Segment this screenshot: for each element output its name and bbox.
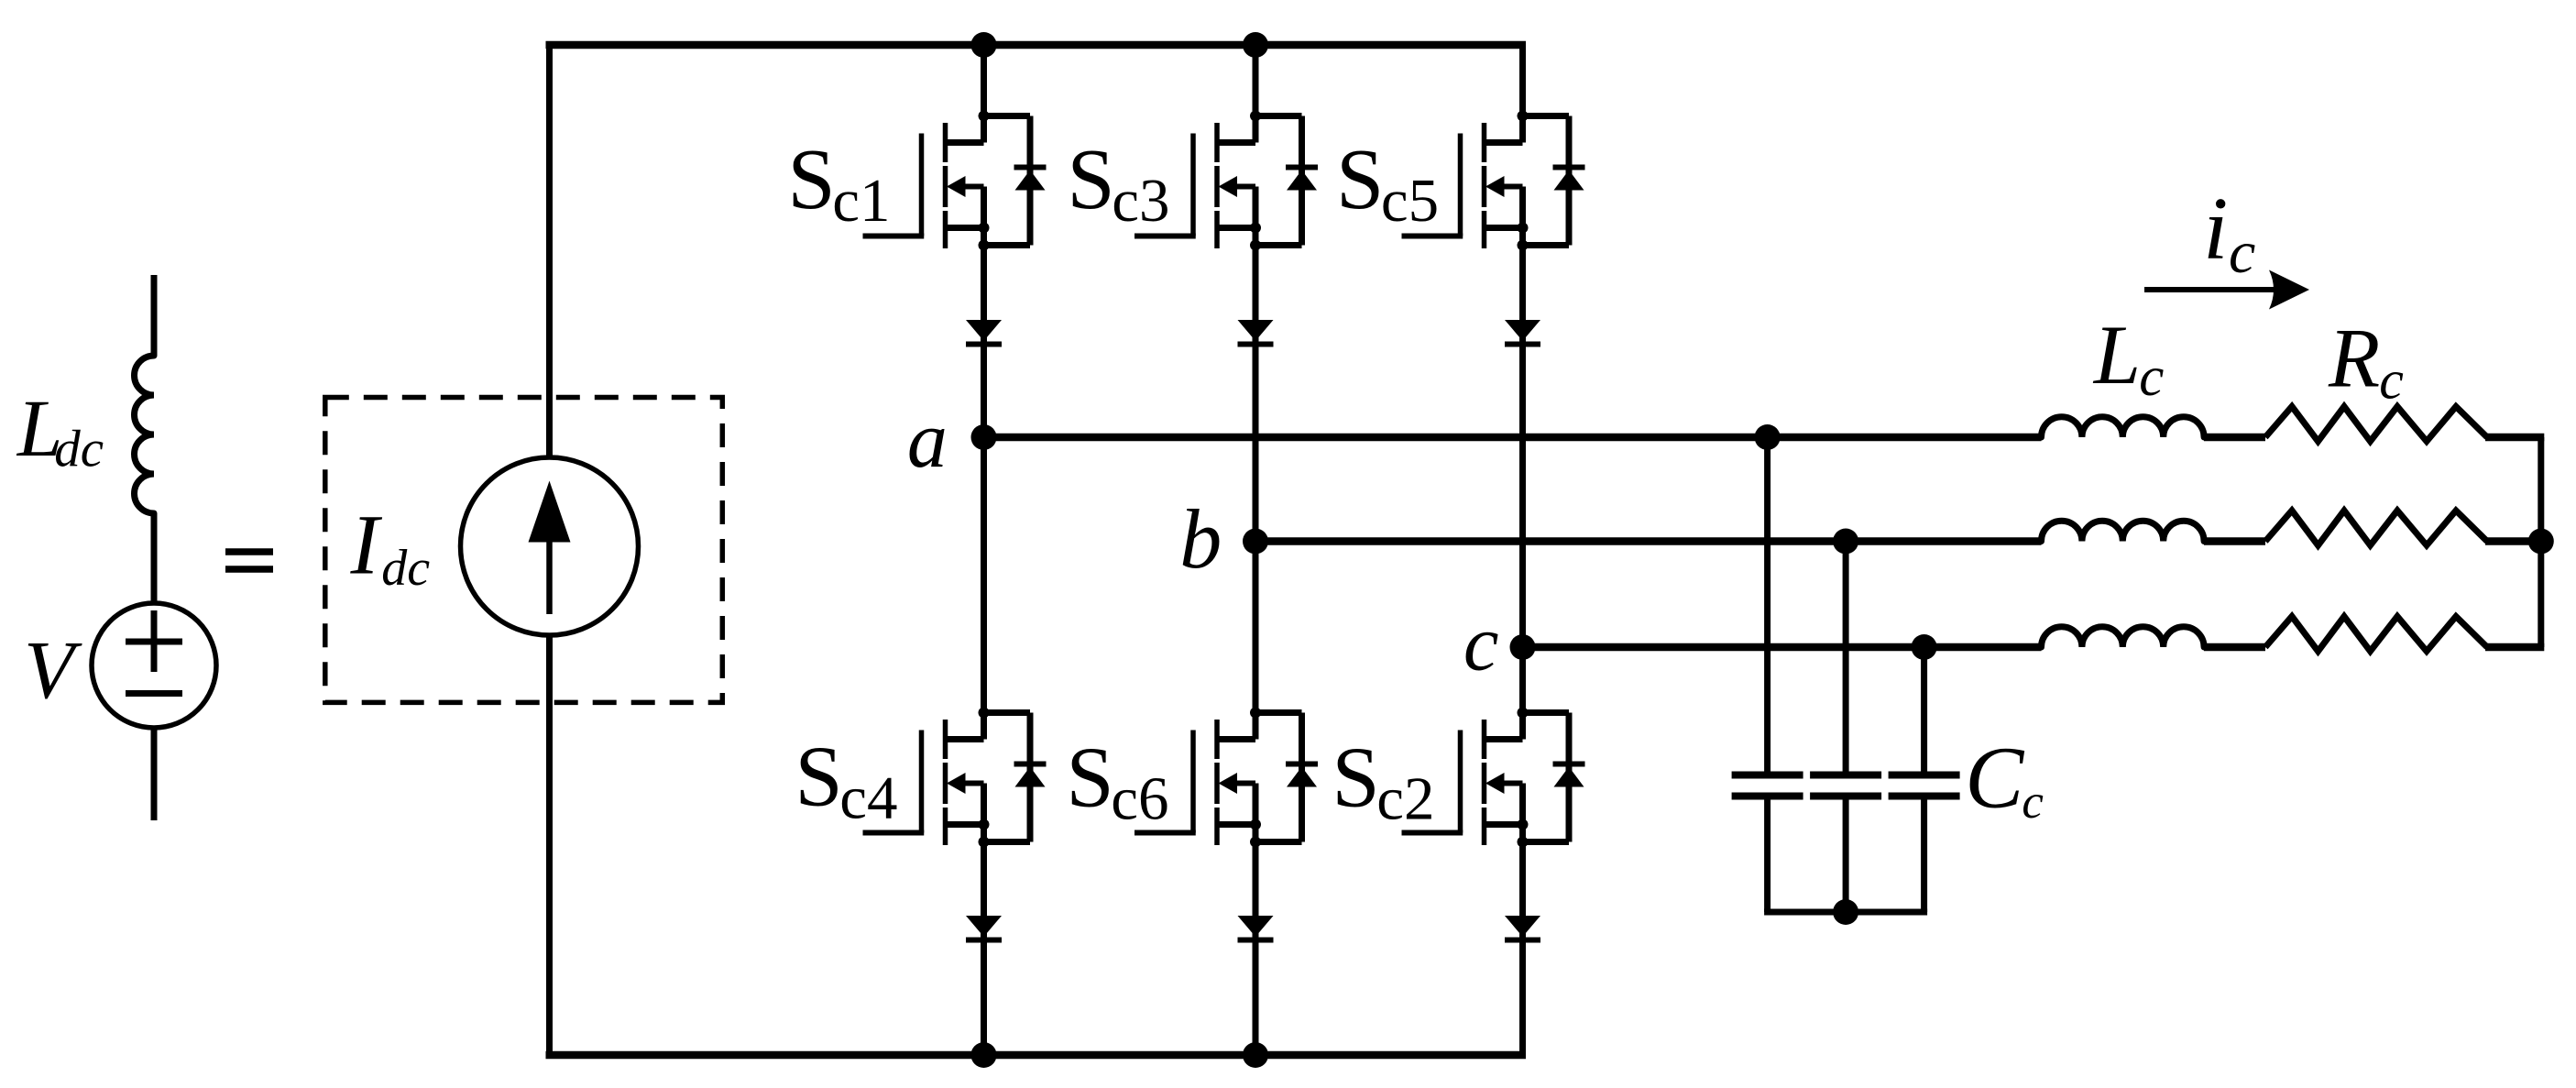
wire leg2 upper-mid [1253, 246, 1259, 542]
transistor Sc1 [863, 111, 1031, 251]
label V [24, 625, 82, 716]
resistor Rc phase a [2265, 407, 2487, 442]
svg-text:S: S [795, 730, 842, 825]
svg-text:c: c [1463, 599, 1499, 687]
svg-text:L: L [2092, 308, 2141, 401]
wire leg2 lower-mid [1253, 542, 1259, 713]
capacitor Cc phase a [1732, 775, 1803, 797]
wire phase c row [1523, 643, 2545, 652]
wire leg1 top [981, 45, 987, 116]
junction c to capacitor [1912, 634, 1937, 660]
wire leg3 lower-mid [1519, 647, 1526, 713]
capacitor Cc phase b [1810, 775, 1881, 797]
svg-text:c5: c5 [1381, 167, 1439, 235]
junction top bus leg1 [971, 32, 997, 58]
junction a to capacitor [1755, 424, 1781, 450]
junction top bus leg2 [1243, 32, 1268, 58]
wire capacitor join bus [1764, 909, 1927, 916]
svg-text:I: I [350, 499, 383, 593]
body diode of Sc5 [1553, 116, 1585, 246]
junction capacitor bus [1833, 899, 1858, 925]
transistor Sc4 [863, 708, 1031, 848]
body diode of Sc3 [1286, 116, 1318, 246]
wire top bus [546, 41, 1527, 49]
wire left rail lower [546, 635, 553, 1059]
series diode D1 [966, 320, 1002, 345]
junction neutral b [2528, 529, 2554, 555]
label Rc [2328, 312, 2404, 411]
svg-text:S: S [1066, 731, 1113, 826]
inductor Lc phase b [2042, 521, 2205, 541]
junction b to capacitor [1833, 529, 1858, 555]
svg-text:b: b [1179, 492, 1222, 586]
label c [1463, 599, 1499, 687]
wire leg1 upper-mid [981, 246, 987, 438]
svg-text:c6: c6 [1111, 765, 1168, 833]
transistor Sc6 [1135, 708, 1302, 848]
svg-text:C: C [1965, 729, 2024, 827]
label b [1179, 492, 1222, 586]
junction bottom bus leg2 [1243, 1042, 1268, 1068]
wire neutral bus [2538, 437, 2544, 647]
wire leg3 bottom [1519, 842, 1526, 1056]
label Lc [2092, 308, 2164, 408]
label Sc1 [787, 132, 890, 235]
capacitor Cc phase c [1889, 775, 1960, 797]
current arrow ic [2144, 270, 2309, 310]
svg-text:c2: c2 [1376, 765, 1434, 833]
svg-text:a: a [907, 396, 948, 485]
wire capacitor branch b [1843, 542, 1849, 913]
label ic [2203, 180, 2255, 286]
body diode of Sc2 [1553, 713, 1585, 842]
svg-text:S: S [1332, 731, 1379, 826]
transistor Sc5 [1402, 111, 1570, 251]
equals sign [225, 552, 273, 569]
wire bottom bus [546, 1051, 1527, 1060]
svg-text:S: S [1067, 132, 1114, 227]
label Ldc [16, 384, 104, 478]
inductor Lc phase a [2042, 417, 2205, 437]
svg-text:dc: dc [54, 421, 104, 478]
svg-text:S: S [1336, 132, 1384, 227]
wire V source bottom lead [151, 728, 158, 820]
label Sc5 [1336, 132, 1439, 235]
resistor Rc phase c [2265, 617, 2487, 652]
wire Ldc top lead [151, 275, 158, 356]
label Sc6 [1066, 731, 1168, 833]
svg-text:c4: c4 [839, 764, 897, 832]
series diode D4 [966, 916, 1002, 940]
current source Idc [461, 457, 639, 635]
wire leg3 top [1519, 42, 1526, 116]
series diode D6 [1238, 916, 1274, 940]
wire leg2 top [1253, 45, 1259, 116]
series diode D3 [1238, 320, 1274, 345]
svg-text:V: V [24, 625, 82, 716]
wire leg1 lower-mid [981, 437, 987, 713]
label Sc4 [795, 730, 897, 832]
wire phase b row [1255, 537, 2544, 545]
wire left rail upper [546, 42, 553, 458]
wire phase a row [984, 434, 2545, 442]
wire capacitor branch c [1921, 647, 1927, 912]
inductor Lc phase c [2042, 627, 2205, 647]
label Sc3 [1067, 132, 1169, 235]
svg-text:c: c [2022, 775, 2044, 829]
wire leg3 upper-mid [1519, 246, 1526, 648]
svg-text:dc: dc [381, 540, 430, 597]
inductor Ldc [135, 356, 155, 513]
svg-text:c3: c3 [1112, 167, 1169, 235]
transistor Sc2 [1402, 708, 1570, 848]
body diode of Sc6 [1286, 713, 1318, 842]
node c [1510, 634, 1536, 660]
junction bottom bus leg1 [971, 1042, 997, 1068]
wire leg1 bottom [981, 842, 987, 1056]
svg-text:S: S [787, 132, 835, 227]
svg-text:c: c [2229, 219, 2255, 286]
wire capacitor branch a [1764, 437, 1770, 912]
dashed box [325, 398, 723, 703]
resistor Rc phase b [2265, 511, 2487, 545]
wire leg2 bottom [1253, 842, 1259, 1056]
svg-text:R: R [2328, 312, 2380, 405]
label Idc [350, 499, 431, 598]
svg-text:c1: c1 [832, 167, 890, 235]
svg-text:c: c [2139, 346, 2164, 408]
wire coil to V source [151, 513, 158, 603]
svg-text:c: c [2379, 350, 2404, 411]
label Sc2 [1332, 731, 1434, 833]
voltage source V [92, 603, 216, 728]
series diode D5 [1505, 320, 1540, 345]
node a [971, 424, 997, 450]
transistor Sc3 [1135, 111, 1302, 251]
series diode D2 [1505, 916, 1540, 940]
node b [1243, 529, 1268, 555]
body diode of Sc4 [1014, 713, 1047, 842]
label Cc [1965, 729, 2044, 830]
svg-text:i: i [2203, 180, 2228, 279]
label a [907, 396, 948, 485]
body diode of Sc1 [1014, 116, 1047, 246]
